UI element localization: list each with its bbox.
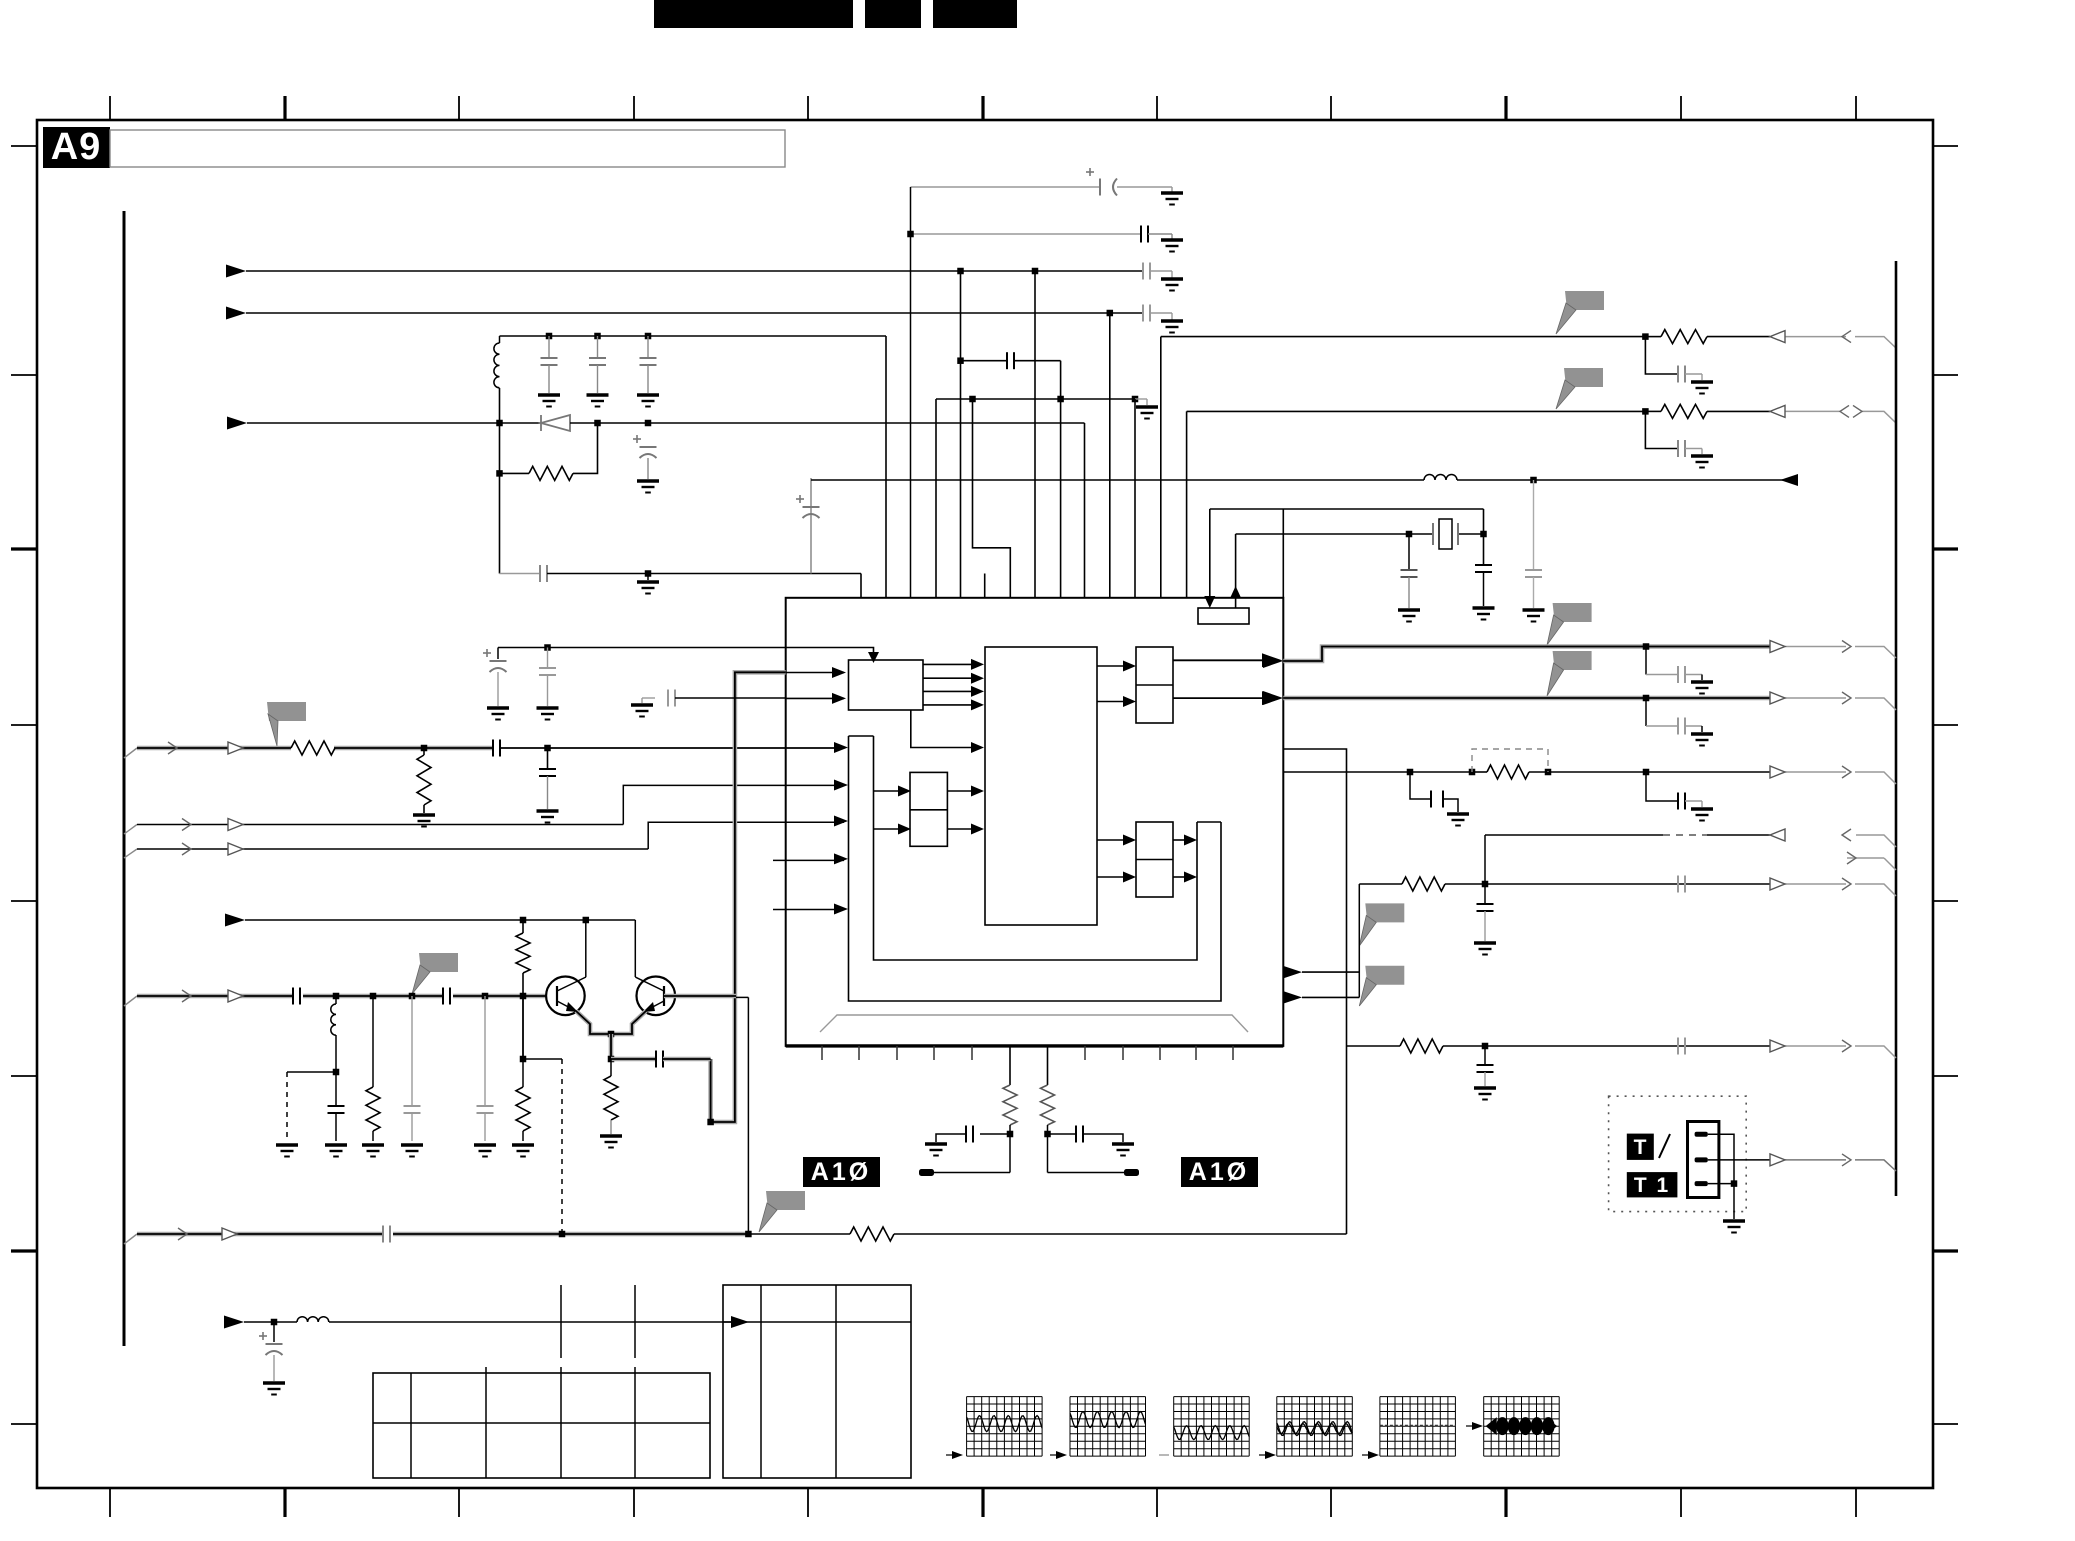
node dot shunt — [333, 1069, 340, 1076]
ground G32 — [925, 1144, 947, 1156]
capacitor C2 — [1141, 226, 1148, 243]
ground G7 — [637, 395, 659, 407]
wire osc loop y509 — [1210, 508, 1484, 510]
wire tr out1 — [1173, 659, 1262, 661]
ground G18 — [631, 705, 653, 717]
ground G33 — [1112, 1144, 1134, 1156]
ground G36 — [487, 708, 509, 720]
chevron in1 — [1842, 331, 1851, 343]
ic bus staple — [849, 735, 874, 737]
flag marker F1 — [1565, 291, 1604, 310]
sheet header rectangle — [110, 130, 785, 167]
wire staple in1 — [834, 742, 848, 753]
table right — [723, 1285, 911, 1478]
wire pin1 link — [1708, 1134, 1734, 1183]
node dot y573 — [645, 570, 652, 577]
diode D1 — [541, 415, 570, 431]
chevron t1 — [1842, 1154, 1851, 1166]
open arrow a1 — [1770, 641, 1785, 653]
resistor R9 — [1003, 1085, 1017, 1125]
ic sub-block pair TR — [1136, 647, 1173, 723]
waveform arrow 4 — [1265, 1451, 1276, 1459]
ground G17 — [537, 811, 559, 823]
capacitor C9 polarized — [796, 495, 820, 518]
inductor L2 — [335, 996, 337, 1004]
ground G19 — [600, 1136, 622, 1148]
chevron a4 — [1842, 878, 1851, 890]
capacitor C15 — [493, 740, 500, 757]
node dot emitter — [608, 1031, 615, 1038]
wire video in y748 — [124, 748, 137, 758]
ground G10 — [1135, 398, 1147, 400]
node dot in2 — [1642, 408, 1649, 415]
resistor R10 — [1041, 1085, 1055, 1125]
resistor R3 — [423, 748, 425, 755]
ground G12 — [1691, 456, 1713, 468]
node dot osc — [1530, 477, 1537, 484]
ground G23 — [401, 1145, 423, 1157]
chevron a1 — [1842, 641, 1851, 653]
wire emitter down — [609, 1034, 614, 1059]
ground G2 — [1161, 240, 1183, 252]
node dot in1 — [1642, 333, 1649, 340]
capacitor C33 — [1048, 1133, 1077, 1135]
capacitor C26 — [1410, 772, 1431, 799]
ic inner bevel — [820, 1015, 1248, 1032]
ic small register box — [1198, 608, 1249, 624]
svg-text:A1Ø: A1Ø — [1189, 1158, 1249, 1186]
ground G25 — [512, 1145, 534, 1157]
sheet label A9 box — [43, 127, 110, 168]
svg-text:A1Ø: A1Ø — [811, 1158, 871, 1186]
ic top pin 910 — [910, 187, 912, 598]
connector pin 2 — [1695, 1157, 1708, 1162]
wire stub y998 — [1284, 991, 1302, 1003]
capacitor C19 — [611, 1057, 656, 1062]
waveform arrow 5 — [1368, 1451, 1379, 1459]
chevron d2 — [1847, 852, 1856, 864]
wire gray y234 — [911, 233, 1142, 235]
ic central block — [985, 647, 1097, 925]
ic top pin 985 — [984, 574, 986, 599]
wire b1 out3 — [923, 690, 971, 692]
svg-text:T 1: T 1 — [1634, 1174, 1670, 1197]
ic top pin 1283 — [1282, 509, 1284, 598]
node dot emitter2 — [608, 1056, 615, 1063]
node dots out3 — [1407, 769, 1414, 776]
ic top pin 1085 — [1084, 423, 1086, 598]
ic top pin 1110 — [1109, 313, 1111, 598]
open arrow d1 — [1770, 829, 1785, 841]
flag marker F5 — [1365, 903, 1404, 922]
wire signal C y423 — [227, 417, 247, 430]
waveform arrow 6 — [1472, 1422, 1483, 1430]
wire out2 y698 — [1283, 696, 1770, 701]
ground G9 — [647, 574, 649, 581]
ic sub-block B1 — [849, 660, 924, 710]
capacitor C5 — [548, 336, 550, 358]
ic jog pin 972 — [973, 399, 1011, 598]
node dot w7 — [271, 1319, 278, 1326]
right bus wire — [1895, 261, 1898, 1196]
node dot n2 — [1044, 1131, 1051, 1138]
waveform scope 6 — [1483, 1397, 1485, 1457]
wire in1 y336 — [1161, 336, 1646, 338]
node dot out2 — [1643, 695, 1650, 702]
chevron a3 — [1842, 766, 1851, 778]
emitter joint path — [576, 1011, 646, 1034]
ic bottom pin 1047 — [1047, 1046, 1049, 1085]
wire staple in4 — [834, 853, 848, 864]
waveform scope 1 — [966, 1397, 968, 1457]
thick bus from ic — [711, 672, 786, 1122]
resistor R6 — [372, 996, 374, 1087]
transistor Q2 — [637, 977, 676, 1016]
ground G11 — [1691, 382, 1713, 394]
wire osc loop y534 — [1236, 533, 1433, 535]
node dots diode line — [594, 420, 601, 427]
node dots w5 — [333, 993, 340, 1000]
table grid open — [560, 1285, 562, 1358]
wire collector rail y920 — [225, 914, 245, 927]
wire q2 base to bus — [664, 994, 736, 999]
waveform dash 3 — [1159, 1454, 1169, 1456]
wire t2base drop — [747, 997, 749, 1234]
ground G31 — [1474, 1088, 1496, 1100]
ground G29 — [1691, 809, 1713, 821]
wire out y1234 — [124, 1234, 137, 1244]
node dots box top — [546, 333, 553, 340]
chevron a5 — [1842, 1040, 1851, 1052]
ic top pin 960 — [960, 271, 962, 598]
chevron w5 — [182, 990, 191, 1002]
capacitor C24 — [1645, 647, 1647, 675]
wire out5 y1046 — [1347, 1045, 1401, 1047]
capacitor C17 — [293, 988, 300, 1005]
ic top pin 1160 — [1160, 337, 1162, 598]
open arrow w5 — [228, 990, 243, 1002]
node dot w6a — [559, 1231, 566, 1238]
ground G16 — [413, 815, 435, 827]
open arrow w6 — [222, 1228, 237, 1240]
wire test point left — [933, 1172, 1010, 1174]
wire pin3 link — [1708, 1183, 1734, 1185]
wire dashed branch — [287, 1071, 336, 1073]
title bar 2 — [865, 0, 921, 28]
wire tr in1 — [1097, 665, 1123, 667]
ground G26 — [1691, 682, 1713, 694]
wire out3 y772 — [1283, 771, 1472, 773]
wire box top y336 — [500, 335, 887, 337]
dashed wire drop — [561, 1059, 563, 1234]
ground G35 — [263, 1383, 285, 1395]
wire link d — [1484, 835, 1486, 884]
flag marker F9 — [766, 1191, 805, 1210]
wire tr out2 — [1173, 697, 1262, 699]
wire ml out1 — [947, 790, 971, 792]
wire b1 in1 — [786, 672, 844, 674]
node dot r1 — [496, 470, 503, 477]
capacitor C3 — [1143, 263, 1150, 280]
ground G20 — [276, 1145, 298, 1157]
node dot out1 — [1643, 643, 1650, 650]
capacitor C7 — [647, 336, 649, 358]
wire inout y858 — [1847, 857, 1884, 859]
wire test point right — [1048, 1172, 1126, 1174]
connector pin 1 — [1695, 1132, 1708, 1137]
ground G4 — [1161, 321, 1183, 333]
node dot line2 — [1107, 310, 1114, 317]
node dots w4 — [520, 917, 527, 924]
wire staple in5 — [834, 904, 848, 915]
wire b1 bottom out — [911, 710, 971, 748]
node dot w6b — [745, 1231, 752, 1238]
capacitor C13 — [1483, 509, 1485, 565]
ic top pin 1236 with up arrow — [1235, 534, 1237, 608]
ic top pin 1035 — [1034, 271, 1036, 598]
slash — [1659, 1134, 1670, 1158]
ground G6 — [587, 395, 609, 407]
ground G28 — [1447, 814, 1469, 826]
wire y399 — [936, 398, 1135, 400]
open arrow in1 — [1770, 331, 1785, 343]
capacitor C12 — [1408, 534, 1410, 570]
ground G8 — [637, 481, 659, 493]
capacitor C4 — [1143, 305, 1150, 322]
node dot w1b — [544, 745, 551, 752]
capacitor C27 — [1646, 772, 1678, 801]
flag marker F4 — [1553, 651, 1592, 670]
chevron w2 — [182, 819, 191, 831]
wire ml out2 — [947, 828, 971, 830]
wire supply out y1322 — [224, 1316, 244, 1329]
ground G1 — [1160, 186, 1172, 188]
wire cap link y360 — [961, 360, 1008, 362]
capacitor C16 — [547, 748, 549, 769]
connector pin 3 — [1695, 1181, 1708, 1186]
wire staple in3 — [834, 816, 848, 827]
resistor R8 — [850, 1227, 894, 1241]
open arrow a4 — [1770, 878, 1785, 890]
chevron w6 — [178, 1228, 187, 1240]
node dot bus234 — [907, 231, 914, 238]
node dots crystal — [1406, 531, 1413, 538]
wire q1 collector — [585, 920, 587, 977]
capacitor C22 — [484, 996, 486, 1106]
wire stub y860 — [773, 859, 844, 861]
ic bottom pin stubs — [821, 1046, 823, 1060]
chevron w1 — [168, 742, 177, 754]
wire stub y909 — [773, 909, 844, 911]
open arrow w3 — [228, 843, 243, 855]
capacitor C8 polarized — [633, 435, 657, 458]
node dot n1 — [1007, 1131, 1014, 1138]
ic top pin 1060 — [1060, 399, 1062, 598]
chevron pair in2 — [1840, 405, 1849, 417]
waveform arrow 2 — [1056, 1451, 1067, 1459]
wire diode to pin — [570, 422, 1085, 424]
ground G14 — [1473, 608, 1495, 620]
dashed alt resistor — [1472, 749, 1548, 772]
svg-text:A9: A9 — [51, 126, 102, 168]
capacitor C11 — [1645, 411, 1678, 448]
wire pin2 out — [1708, 1159, 1770, 1161]
label T — [1627, 1134, 1654, 1160]
title bar 3 — [933, 0, 1017, 28]
resistor R2 — [291, 741, 335, 755]
capacitor C36 — [547, 648, 549, 669]
wire mr in2 — [1097, 876, 1123, 878]
wire osc y480 — [811, 479, 1424, 481]
capacitor C32 — [980, 1133, 1010, 1135]
wire connector ground — [1733, 1184, 1735, 1219]
resistor R7 — [522, 996, 524, 1087]
capacitor C30 — [1484, 1046, 1486, 1065]
svg-text:T: T — [1634, 1136, 1647, 1159]
open arrow in2 — [1770, 405, 1785, 417]
ground G30 — [1474, 943, 1496, 955]
inductor L1 vertical — [499, 336, 501, 343]
wire tr in2 — [1097, 701, 1123, 703]
wire in2 y411 — [1187, 410, 1646, 412]
ground G27 — [1691, 734, 1713, 746]
wire box bottom y573 — [500, 573, 541, 575]
ground G3 — [1161, 279, 1183, 291]
ic sub-block pair MR — [1136, 822, 1173, 897]
capacitor C31 — [1678, 1038, 1685, 1055]
capacitor C10 — [1645, 337, 1678, 374]
wire ml in2 — [874, 828, 899, 830]
resistor R5 — [610, 1059, 612, 1076]
wire staple in2 — [834, 780, 848, 791]
ground G15 — [1523, 610, 1545, 622]
waveform arrow 1 — [952, 1451, 963, 1459]
capacitor C23 — [383, 1226, 390, 1243]
capacitor C28 — [1484, 884, 1486, 904]
wire ml in1 — [874, 790, 899, 792]
waveform scope 2 — [1069, 1397, 1071, 1457]
label T1 — [1627, 1172, 1678, 1197]
capacitor C35 polarized — [497, 648, 499, 660]
node dot out5 — [1482, 1043, 1489, 1050]
waveform scope 5 — [1379, 1397, 1381, 1457]
label A10 left — [803, 1157, 880, 1187]
ground G34 — [1723, 1221, 1745, 1233]
arrowhead osc — [1780, 474, 1798, 486]
ground G13 — [1398, 610, 1420, 622]
ic U1 outline — [786, 598, 1284, 1046]
open arrow a3 — [1770, 766, 1785, 778]
node dot out4 — [1482, 881, 1489, 888]
flag marker F6 — [1365, 966, 1404, 985]
wire b1 out1 — [923, 663, 971, 665]
wire out4 y884 — [1359, 883, 1402, 885]
wire thin in y849 — [124, 849, 137, 858]
left bus wire — [123, 211, 126, 1346]
wire signal A y271 — [226, 265, 246, 278]
ic sub-block pair ML — [910, 772, 947, 846]
resistor R1 — [500, 472, 530, 474]
chevron a2 — [1842, 692, 1851, 704]
node dot bus emitter — [707, 1119, 714, 1126]
wire +supply top gray — [911, 186, 1101, 188]
connector J1 — [1688, 1122, 1719, 1198]
transistor Q1 — [546, 977, 585, 1016]
open arrow a5 — [1770, 1040, 1785, 1052]
capacitor C14 — [1533, 480, 1535, 570]
wire stub y967 — [1284, 966, 1302, 978]
ic bottom pin 1010 — [1009, 1046, 1011, 1085]
flag marker F2 — [1564, 368, 1603, 387]
capacitor C1 polarized — [1086, 168, 1117, 196]
open arrow w1 — [228, 742, 243, 754]
wire mr in1 — [1097, 839, 1123, 841]
ic top pin 861 — [810, 478, 812, 574]
flag marker F7 — [267, 702, 306, 721]
ground G5 — [538, 395, 560, 407]
ic top pin 1135 — [1134, 399, 1136, 598]
node dot d1 — [496, 420, 503, 427]
wire riser 1347 — [1283, 749, 1346, 1234]
capacitor C6 — [597, 336, 599, 358]
wire link e — [1358, 884, 1360, 997]
chevron w3 — [182, 843, 191, 855]
waveform scope 3 — [1173, 1397, 1175, 1457]
resistor R4 — [522, 920, 524, 933]
wire mr out1 — [1173, 839, 1184, 841]
arrow out1 — [1263, 654, 1283, 668]
title bar 1 — [654, 0, 853, 28]
frame tick marks top and bottom — [109, 96, 111, 120]
ground G24 — [474, 1145, 496, 1157]
label A10 right — [1181, 1157, 1258, 1187]
wire b1 out4 — [923, 704, 971, 706]
node dot w1a — [421, 745, 428, 752]
wire vtune y647 — [498, 647, 786, 649]
wire out1 y646 — [1283, 647, 1770, 662]
chevron d1 — [1842, 829, 1851, 841]
wire q2 collector — [634, 920, 636, 977]
flag marker F8 — [419, 953, 458, 972]
ground G22 — [362, 1145, 384, 1157]
flag marker F3 — [1553, 603, 1592, 622]
wire audio in y996 — [124, 996, 137, 1006]
wire base bias — [523, 1058, 562, 1060]
wire thin in y824 — [124, 825, 137, 835]
ic top pin 886 — [885, 336, 887, 598]
ground G21 — [325, 1145, 347, 1157]
dotted option box — [1609, 1096, 1747, 1211]
wire b1 out2 — [923, 677, 971, 679]
wire gnd cap y698 — [642, 697, 655, 699]
frame tick marks left and right — [11, 145, 37, 147]
capacitor C18 — [443, 988, 450, 1005]
capacitor C21 — [411, 996, 413, 1106]
ground G37 — [537, 708, 559, 720]
capacitor C20 — [335, 1072, 337, 1106]
waveform scope 4 — [1276, 1397, 1278, 1457]
capacitor C29 — [1678, 876, 1685, 893]
open arrow a2 — [1770, 692, 1785, 704]
wire inout y835 — [1485, 834, 1663, 836]
open arrow t1 — [1770, 1154, 1785, 1166]
wire b1 top input — [786, 648, 874, 656]
ic top pin 1186 — [1186, 411, 1188, 598]
open arrow w2 — [228, 819, 243, 831]
node dot capwire — [957, 357, 964, 364]
table left — [373, 1373, 710, 1478]
ic top pin 936 — [935, 399, 937, 598]
